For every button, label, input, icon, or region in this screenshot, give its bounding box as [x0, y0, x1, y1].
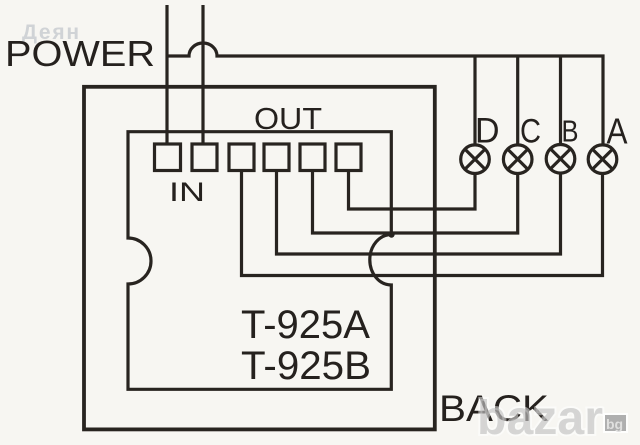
terminal 4 (OUT B) [264, 144, 289, 171]
wire terminal5 to lamp C [313, 170, 518, 233]
lamp A [588, 145, 617, 174]
wire terminal6 to lamp D [349, 170, 476, 209]
lamp C [503, 145, 532, 174]
terminal 3 (OUT A) [229, 144, 254, 171]
lamp D [461, 145, 490, 174]
svg-text:IN: IN [169, 177, 205, 207]
outer box BACK panel [84, 87, 435, 430]
svg-text:bazar: bazar [477, 392, 603, 445]
watermark bazar.bg [477, 392, 627, 445]
lamp B [546, 145, 575, 174]
wire lamp D drop [473, 56, 476, 145]
svg-text:B: B [562, 114, 579, 149]
svg-text:T-925B: T-925B [241, 344, 371, 388]
svg-text:bg: bg [606, 416, 623, 432]
svg-text:D: D [475, 112, 500, 151]
wire terminal4 to lamp B [277, 170, 561, 254]
wire power line N [201, 5, 204, 144]
svg-text:OUT: OUT [254, 101, 322, 136]
wire power line L [165, 5, 168, 144]
wire power feed to lamps (hop over N) [167, 43, 603, 145]
junction blob at right notch top [388, 231, 394, 237]
wire lamp C drop [516, 56, 519, 145]
terminal 6 (OUT D) [336, 144, 361, 171]
svg-text:POWER: POWER [5, 33, 155, 74]
terminal 5 (OUT C) [300, 144, 325, 171]
inner box terminal plate with side notches [128, 132, 391, 390]
wire terminal3 to lamp A [242, 170, 603, 276]
svg-text:T-925A: T-925A [241, 303, 370, 347]
svg-text:C: C [520, 113, 541, 151]
terminal 1 (IN-L) [155, 144, 181, 171]
svg-text:A: A [607, 111, 628, 152]
terminal 2 (IN-N) [192, 144, 217, 171]
wire lamp B drop [559, 56, 562, 145]
